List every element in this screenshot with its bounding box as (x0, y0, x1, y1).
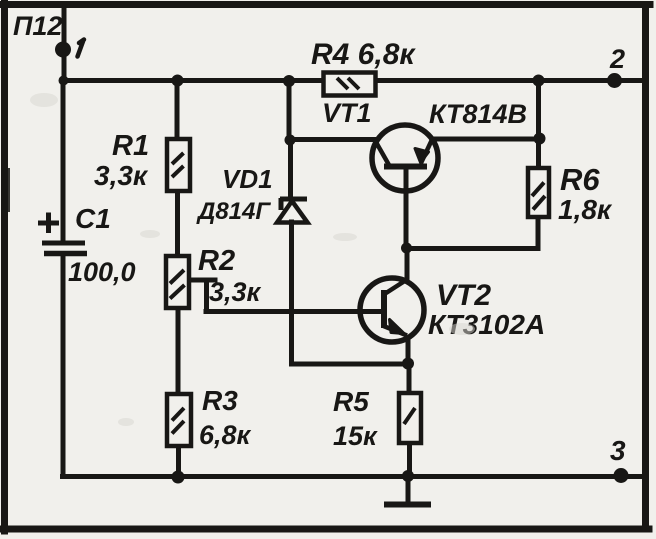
zener diode VD1 (277, 198, 308, 223)
wire ground stub (406, 476, 411, 502)
node 3 terminal dot (614, 468, 629, 483)
svg-text:1,8к: 1,8к (558, 194, 613, 225)
wire R6 node up to top rail (536, 80, 541, 138)
node junction VT1 emitter/R6 (534, 133, 546, 145)
resistor R1 (167, 139, 190, 191)
wire VD1 bottom to VT2 emitter node (292, 362, 409, 367)
svg-text:R1: R1 (112, 130, 149, 162)
transistor VT2 (360, 278, 424, 342)
resistor R6 (528, 168, 549, 217)
svg-text:VD1: VD1 (222, 164, 273, 194)
svg-text:R4 6,8к: R4 6,8к (311, 38, 416, 71)
resistor R5 (399, 393, 421, 443)
wire R3 bottom lead (176, 445, 181, 477)
svg-text:R6: R6 (560, 162, 600, 197)
svg-text:15к: 15к (333, 421, 378, 451)
svg-text:100,0: 100,0 (68, 257, 136, 287)
wire node1 vertical from frame (62, 7, 67, 80)
scan smudges (decorative) (30, 93, 475, 426)
svg-text:R5: R5 (333, 386, 369, 417)
capacitor C1 (38, 213, 87, 254)
wire bottom rail (63, 474, 645, 479)
svg-text:2: 2 (609, 44, 625, 74)
node junction C1/top rail (59, 76, 69, 86)
node junction VD1/VT1 (285, 135, 296, 146)
node 2 terminal dot (607, 73, 622, 88)
wire top rail left of R4 (63, 78, 323, 83)
wire R6 top lead (536, 138, 541, 168)
wire R5 bottom lead (407, 442, 412, 477)
wire R1 top lead (175, 80, 180, 140)
wire R6 bottom to VT1 base node (407, 246, 538, 251)
resistor R4 (324, 73, 376, 96)
wire VT2 collector lead (405, 248, 410, 280)
wire R5 top lead (407, 363, 412, 393)
transistor VT1 (372, 125, 438, 191)
svg-text:VT1: VT1 (322, 98, 372, 128)
wire R6 bottom lead (536, 216, 541, 249)
wire VT2 emitter lead (406, 338, 411, 364)
wire VD1 upper vertical (287, 80, 292, 140)
node junction R5-ground/bottom rail (402, 470, 414, 482)
node junction R1/top rail (172, 75, 184, 87)
node junction R3/bottom rail (172, 471, 185, 484)
wire VD1 cathode lead (288, 140, 293, 198)
wire VT1 base lead (404, 168, 409, 248)
wire C1 bottom lead (61, 255, 66, 476)
svg-text:КТ3102А: КТ3102А (428, 309, 545, 340)
svg-text:КТ814В: КТ814В (429, 99, 527, 129)
svg-text:VT2: VT2 (436, 279, 491, 312)
node junction VD1/top rail (283, 75, 295, 87)
ground (384, 502, 431, 508)
wire VD1 node to VT1 collector (290, 137, 374, 142)
resistor R2 (166, 256, 189, 308)
node junction VT2 emitter/R5 (402, 358, 414, 370)
svg-text:C1: C1 (75, 203, 111, 234)
wire R2 wiper tap (189, 280, 383, 312)
svg-text:Д814Г: Д814Г (196, 198, 271, 225)
wire R1 to R2 (175, 190, 180, 256)
wire VT1 emitter to R6 node (436, 137, 540, 142)
svg-text:3: 3 (610, 435, 626, 466)
resistor R3 (167, 394, 191, 446)
svg-text:R3: R3 (202, 385, 238, 416)
wire R2 to R3 (176, 307, 181, 394)
svg-text:R2: R2 (198, 245, 235, 277)
svg-text:3,3к: 3,3к (94, 160, 149, 191)
label node 1 (78, 40, 85, 57)
svg-text:3,3к: 3,3к (209, 277, 262, 307)
wire C1 top lead (61, 80, 66, 241)
node 1 terminal dot (55, 42, 71, 58)
wire top rail right of R4 (376, 78, 643, 83)
svg-text:П12: П12 (13, 11, 62, 41)
svg-text:6,8к: 6,8к (199, 420, 252, 450)
node junction VT1 base/R6 bottom (401, 243, 412, 254)
wire VD1 anode down (289, 222, 294, 364)
node junction R6 branch/top rail (533, 75, 545, 87)
